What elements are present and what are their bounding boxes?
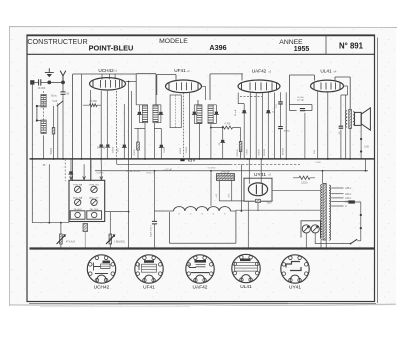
wire UY41 cathode stem (257, 203, 259, 211)
IF1 primary coil (142, 105, 147, 123)
IF transformer T2 can (198, 74, 243, 105)
svg-text:16 000: 16 000 (38, 87, 46, 90)
tone feedback network R/C (289, 105, 312, 111)
svg-text:100000: 100000 (264, 148, 266, 156)
svg-text:.v5: .v5 (268, 174, 272, 177)
svg-text:ACC. RA: ACC. RA (73, 196, 82, 199)
svg-text:N° 891: N° 891 (339, 42, 364, 51)
capacitor C7 (243, 110, 246, 112)
svg-text:50 000: 50 000 (297, 97, 304, 99)
coil frame wires (37, 106, 41, 121)
svg-text:t3: t3 (201, 213, 203, 216)
svg-text:UY41: UY41 (254, 172, 266, 178)
svg-text:4 500: 4 500 (315, 162, 321, 164)
capacitor C9 stack (280, 92, 282, 159)
svg-text:UY41: UY41 (289, 284, 301, 290)
junction dots mains (360, 214, 362, 216)
svg-text:CONSTRUCTEUR: CONSTRUCTEUR (27, 37, 87, 46)
filter choke L2 (174, 207, 231, 211)
wire AVC drop (81, 74, 83, 159)
svg-text:TCO: TCO (276, 103, 278, 108)
IF1 trim capacitors (138, 112, 141, 114)
header divider (325, 36, 327, 55)
wire UL41 bottom stubs (318, 92, 328, 160)
svg-text:UAF42: UAF42 (193, 284, 208, 290)
wire UF41 grid rail (157, 75, 176, 96)
arrowheads into gang (70, 176, 103, 179)
svg-text:70000: 70000 (164, 146, 166, 153)
svg-text:═ 4,7 nF: ═ 4,7 nF (162, 170, 172, 172)
svg-text:UF41: UF41 (143, 284, 155, 290)
resistor R2 10000 (116, 143, 118, 159)
node A input wire (49, 81, 63, 83)
resistor R8 25000 (131, 91, 133, 159)
resistor R3 4700 (222, 126, 233, 129)
coupling rail wire (289, 75, 314, 105)
wire osc elbow (116, 159, 118, 164)
wire choke box (169, 210, 236, 243)
socket UY41 (281, 255, 309, 283)
svg-text:UCH42: UCH42 (96, 173, 104, 175)
label 6,3V (180, 159, 184, 162)
AVC dashed wire (240, 96, 262, 98)
wire UY41 feeds (248, 159, 250, 184)
gang shaft stem (83, 224, 88, 232)
wire gang feeds (70, 159, 72, 180)
svg-text:20000: 20000 (186, 146, 188, 153)
svg-text:POINT-BLEU: POINT-BLEU (89, 44, 134, 53)
svg-text:POS. GO: POS. GO (89, 184, 99, 186)
capacitor C1 16pF (39, 79, 41, 85)
wire B+ line to transformer (236, 209, 320, 211)
svg-text:25000: 25000 (134, 149, 136, 156)
header rule (27, 53, 375, 55)
gang trimmer blocks (70, 211, 85, 219)
antenna coil L1 (42, 91, 44, 136)
wire speaker returns (349, 129, 351, 160)
ground symbol (45, 68, 54, 77)
svg-text:1500: 1500 (267, 202, 273, 204)
svg-text:.v2: .v2 (186, 69, 190, 73)
svg-text:50000: 50000 (259, 149, 261, 156)
resistor R7 50000 (52, 128, 55, 135)
wire plug stems (306, 233, 350, 249)
svg-text:1 M(LOG): 1 M(LOG) (114, 240, 125, 243)
svg-text:ANNEE: ANNEE (279, 39, 303, 46)
wire UAF42 bottom stubs (238, 93, 244, 104)
svg-text:UL41: UL41 (320, 69, 332, 74)
filter capacitor block 50+50uF (217, 174, 235, 181)
svg-text:6,3 V: 6,3 V (188, 159, 196, 163)
socket UAF42 (186, 255, 214, 283)
capacitor C4 (106, 144, 109, 146)
wire B+ drops (240, 164, 242, 211)
svg-text:t4: t4 (213, 213, 215, 216)
svg-text:12,5 k: 12,5 k (301, 182, 308, 185)
wire IF2 bottoms (200, 124, 211, 160)
wire grid stopper drop (304, 113, 306, 159)
svg-text:UY41, 1 et 3: UY41, 1 et 3 (126, 170, 140, 173)
svg-text:t2: t2 (190, 213, 192, 216)
heater bus (95, 170, 368, 172)
resistor R5 (249, 93, 251, 160)
svg-text:UCH42: UCH42 (98, 68, 114, 73)
IF2 primary coil (197, 105, 202, 124)
svg-text:UCH42: UCH42 (94, 284, 110, 290)
power transformer T4 core (323, 184, 326, 241)
svg-text:ACC. GO: ACC. GO (89, 196, 99, 199)
wire HT right drop (365, 159, 367, 171)
svg-text:47 k A.G: 47 k A.G (66, 240, 75, 243)
tube UCH42 (V1) (90, 78, 126, 90)
svg-text:10000: 10000 (113, 146, 115, 153)
wire left drop (31, 82, 33, 222)
svg-text:UL41: UL41 (240, 284, 252, 290)
IF2 trim capacitors (193, 112, 196, 114)
tuning gang CV (69, 180, 105, 221)
wire UAF42 grid stub (241, 74, 243, 81)
antenna (60, 71, 66, 83)
svg-text:130 v: 130 v (345, 197, 352, 200)
svg-text:20%: 20% (118, 148, 120, 152)
mains switch (351, 239, 358, 243)
svg-text:500000: 500000 (241, 148, 243, 156)
svg-text:50µF, 150 V: 50µF, 150 V (151, 225, 153, 237)
svg-text:245 v: 245 v (345, 187, 352, 190)
grid rail wire (73, 74, 137, 181)
svg-text:10000: 10000 (180, 147, 182, 154)
IF2 secondary coil (208, 105, 213, 124)
resistor R6 surge 12,5k (299, 176, 310, 179)
chassis ground bus (30, 247, 375, 249)
socket UF41 (135, 255, 163, 283)
socket UCH42 (87, 255, 115, 283)
loudspeaker LS (354, 112, 361, 125)
wave switch (57, 101, 63, 106)
wire screen drops (340, 95, 342, 159)
wire T4 top feed (322, 171, 324, 184)
svg-text:1955: 1955 (294, 46, 310, 53)
svg-text:t1: t1 (178, 213, 180, 216)
electrolytic C10 (154, 171, 156, 222)
svg-text:4,7 nF: 4,7 nF (297, 99, 304, 102)
fuse F1 (348, 200, 355, 203)
border frame (27, 35, 375, 302)
svg-text:+275: +275 (229, 193, 231, 199)
chassis junction dots (128, 248, 130, 250)
svg-text:UCH42: UCH42 (208, 167, 216, 169)
wire UL41 plate rail (335, 77, 350, 109)
wire UCH42 bottom stubs (90, 90, 92, 181)
oscillator coil box (170, 95, 181, 128)
capacitor C6 (222, 128, 224, 140)
svg-text:50000: 50000 (51, 147, 53, 154)
wire diode load (274, 93, 276, 160)
svg-text:0,05: 0,05 (364, 146, 369, 148)
svg-text:UY41, 2: UY41, 2 (146, 173, 155, 175)
input connector J1 (30, 80, 34, 84)
resistor R4 470000 (240, 128, 242, 142)
svg-text:2×50 µF: 2×50 µF (221, 171, 230, 174)
capacitor C2 50 (62, 82, 64, 91)
capacitor C11 (123, 104, 125, 159)
svg-text:B.Inc: B.Inc (52, 96, 58, 98)
resistor R1 47000 (90, 104, 98, 107)
IF1 secondary coil (153, 105, 158, 123)
wire UF41 plate (202, 86, 206, 100)
wire heater drop (210, 171, 212, 206)
tube UL41 (V4) (311, 80, 344, 92)
svg-text:500000: 500000 (283, 147, 285, 155)
wire UCH42 top stubs (102, 74, 115, 80)
svg-text:A396: A396 (209, 43, 226, 52)
socket UL41 (232, 254, 260, 282)
capacitor C13 (69, 171, 72, 173)
wire UY41 anode to HV (272, 189, 320, 191)
tube UAF42 (V3) (238, 80, 280, 93)
T4 primary winding (321, 185, 322, 240)
svg-text:UF41: UF41 (174, 68, 186, 73)
wire gang right link (105, 211, 129, 213)
wire det out (285, 92, 287, 159)
svg-text:470000: 470000 (237, 149, 239, 157)
wire g2 drop (255, 93, 257, 159)
HT bus (30, 158, 375, 160)
svg-text:1 MΩ: 1 MΩ (247, 149, 249, 155)
svg-text:50 mA: 50 mA (234, 109, 237, 116)
T4 secondary winding (329, 185, 330, 240)
capacitor C12 (154, 128, 161, 159)
wire UCH42 plate to IF1 (126, 81, 137, 83)
svg-text:40000: 40000 (284, 131, 291, 133)
wire UCH42 right drop (128, 82, 130, 249)
tube UF41 (V2) (166, 80, 202, 93)
IF transformer T1 can (136, 74, 156, 105)
T4 voltage taps (331, 187, 343, 189)
svg-text:5-20: 5-20 (53, 101, 58, 103)
bus junction dots (31, 158, 33, 160)
svg-text:POS. RA: POS. RA (73, 183, 82, 186)
svg-text:.v4: .v4 (333, 69, 337, 73)
wire T4 bottom returns (321, 240, 326, 249)
wire coil tap drops (53, 106, 55, 159)
svg-text:4 700: 4 700 (224, 124, 230, 126)
wire gang left return (32, 222, 69, 224)
junction dots speaker (360, 138, 362, 140)
voltage selector plug (301, 221, 320, 238)
potentiometer P2 tone (109, 212, 111, 234)
svg-text:MODELE: MODELE (159, 38, 188, 45)
svg-text:.v1: .v1 (114, 69, 118, 73)
svg-text:t5: t5 (224, 213, 226, 216)
capacitor C8 (267, 93, 269, 160)
wire IF1 bottoms (145, 123, 154, 159)
wire UF41 bottom stubs (183, 93, 185, 159)
svg-text:.v3: .v3 (268, 69, 272, 73)
potentiometer P1 volume (60, 223, 62, 234)
capacitor C3 (100, 144, 103, 146)
svg-text:220 v: 220 v (345, 193, 352, 196)
svg-text:UAF42: UAF42 (252, 69, 267, 74)
secondary wire y164 (117, 163, 230, 165)
